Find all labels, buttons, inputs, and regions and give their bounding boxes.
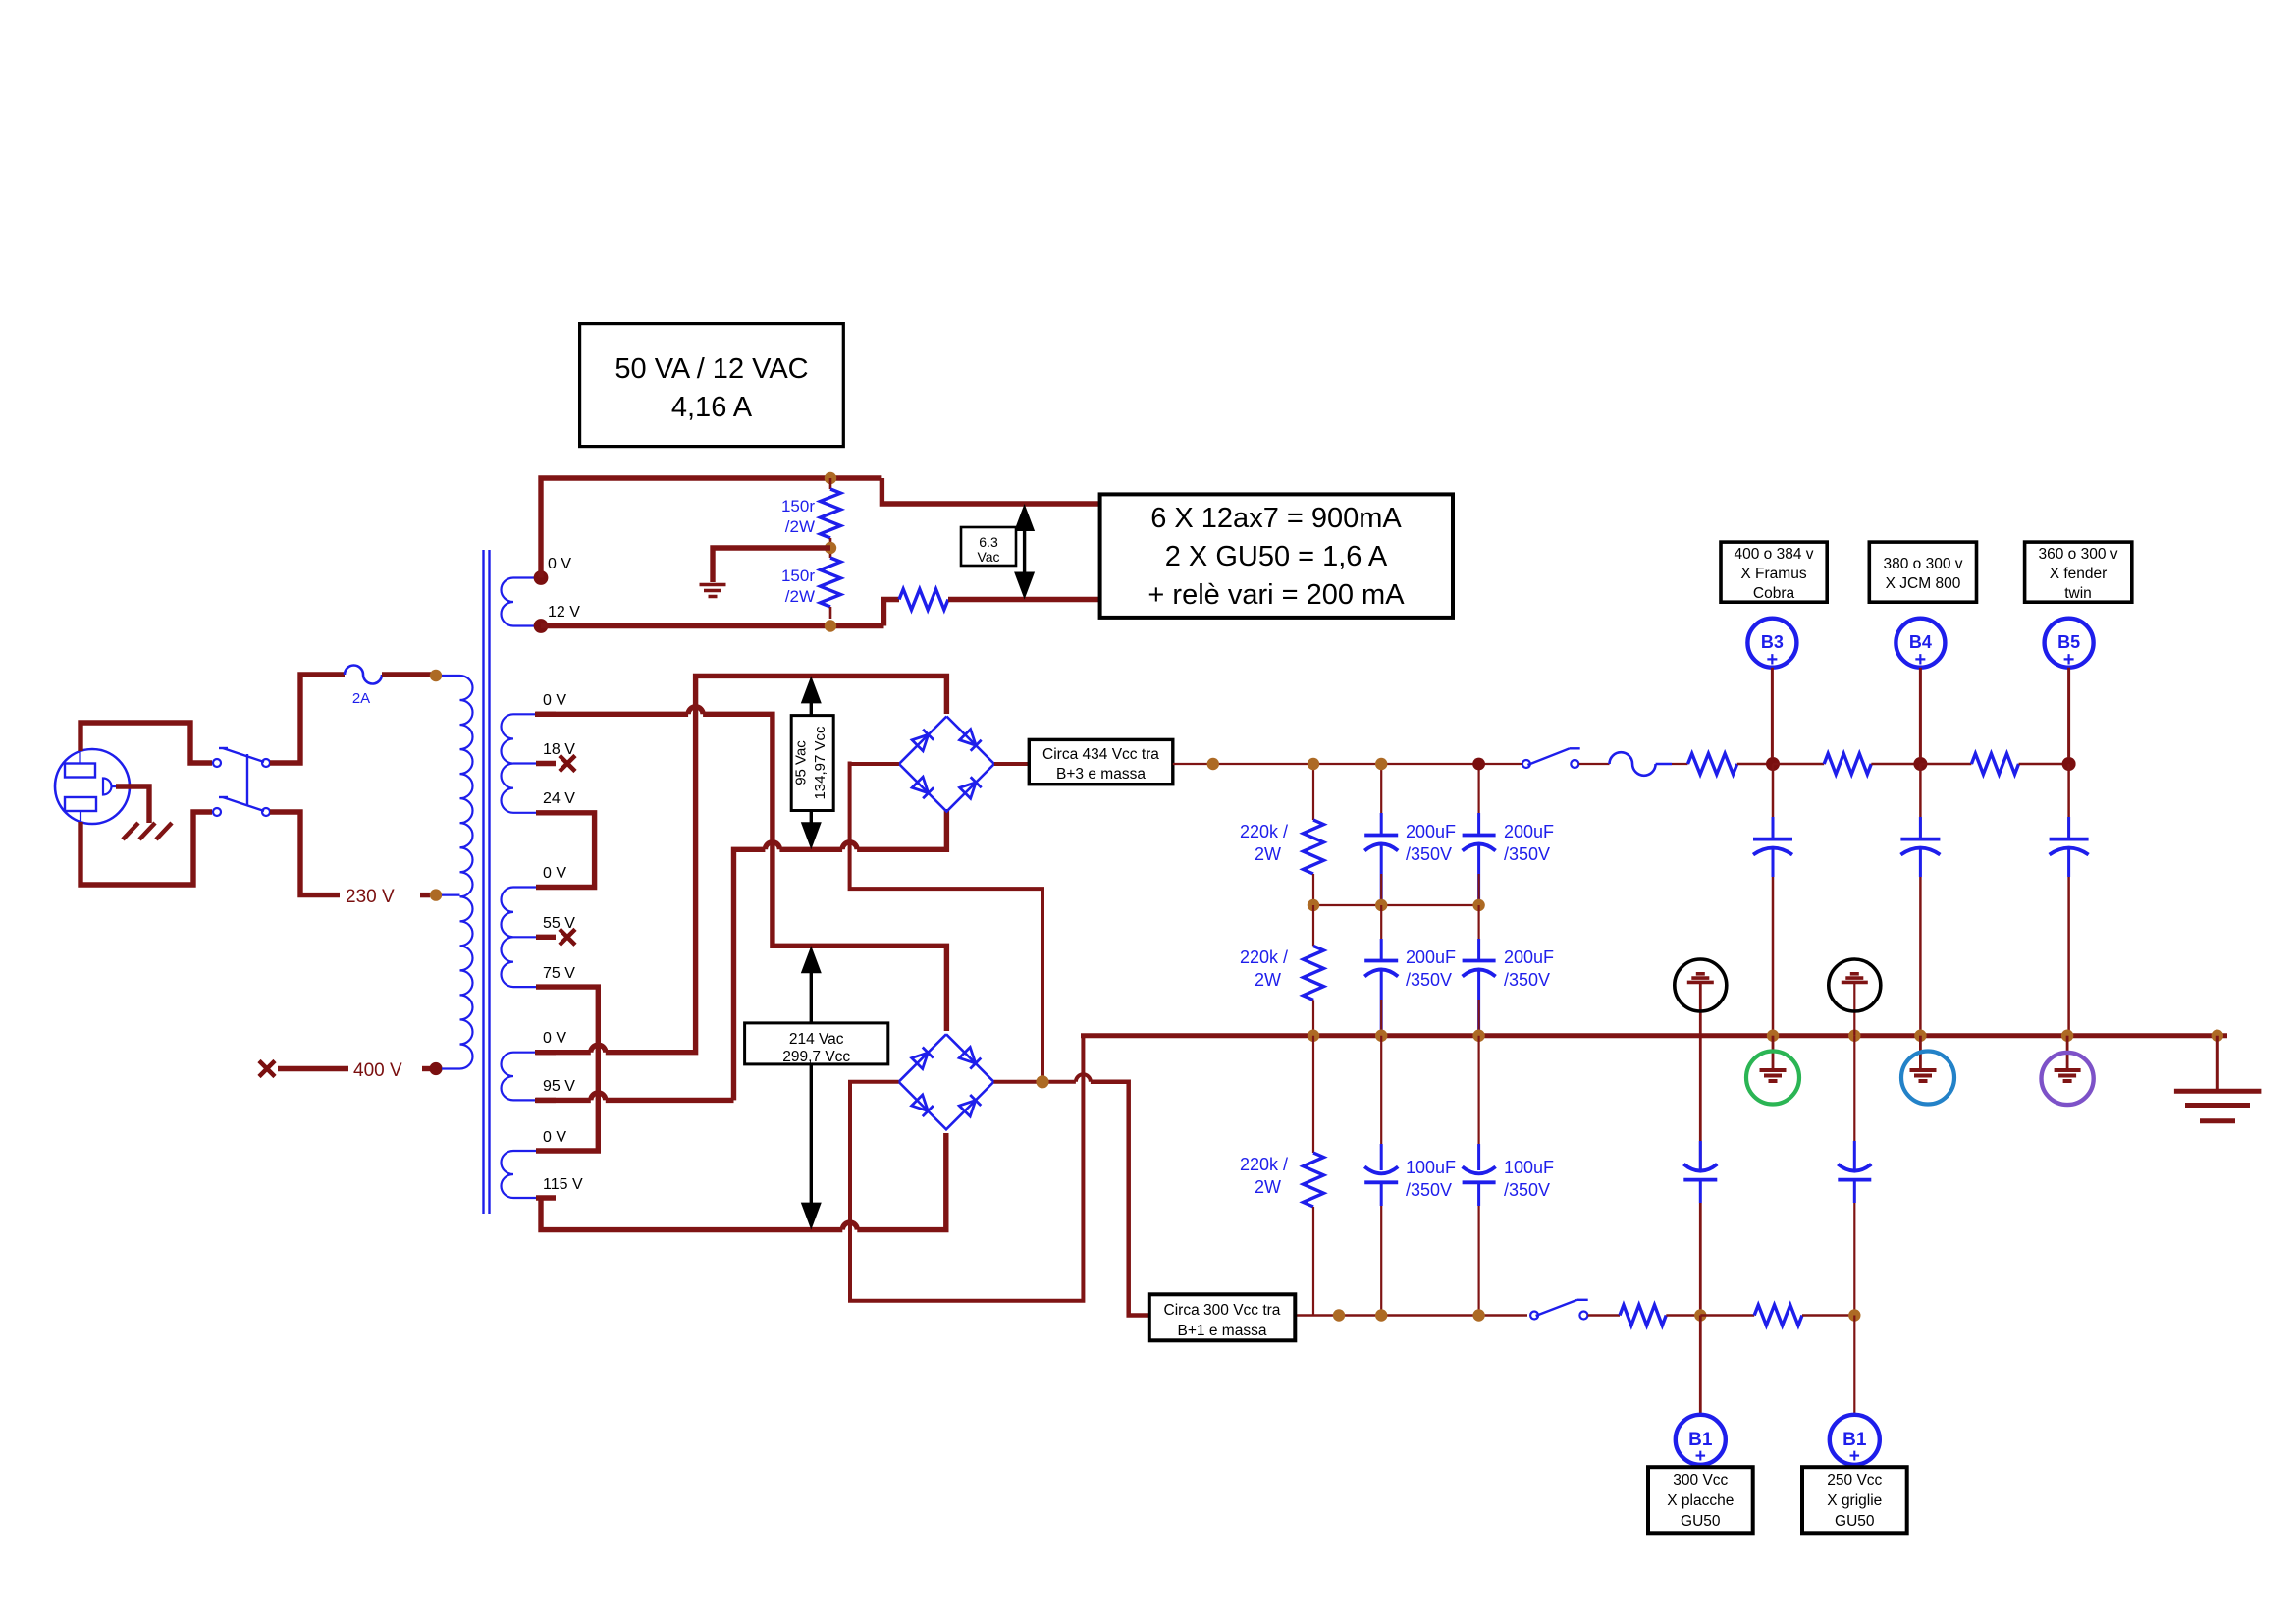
svg-text:150r: 150r [781,567,815,585]
transformer secondary W5 0-115 [502,1151,514,1198]
svg-text:24 V: 24 V [543,790,575,807]
capacitor C6 100uF/350V [1477,1036,1479,1170]
wire heater center tap to ground [713,548,830,582]
open end 400V [259,1061,275,1077]
svg-text:380 o 300 v: 380 o 300 v [1883,556,1962,572]
ground heater [700,583,726,587]
svg-text:230 V: 230 V [346,887,395,907]
svg-text:2W: 2W [1255,1177,1281,1197]
resistor R8 dropper [1773,763,1824,766]
svg-text:50 VA / 12 VAC: 50 VA / 12 VAC [614,353,808,385]
ground circle purple [2066,1036,2069,1070]
transformer secondary W3 0-55-75 [501,888,513,988]
node massa B3 [1767,1030,1779,1042]
box heater load [1100,494,1453,618]
switch S1 link [246,754,248,805]
fuse F2 [1610,752,1656,776]
terminal B3 [1747,619,1796,668]
capacitor C10 B1 filter [1699,1141,1702,1171]
mains plug P1 [55,749,130,824]
box 6.3 Vac [961,527,1016,566]
node B+3 out [1207,758,1219,770]
fuse F1 [345,666,382,684]
node massa B5 [2061,1030,2073,1042]
node massa 2 [1375,1030,1387,1042]
protective earth symbol [123,823,138,839]
svg-text:/350V: /350V [1406,844,1452,864]
tap W2 18V [513,762,536,764]
wire switch to fuse [270,675,345,763]
wire 230V tap [270,812,340,895]
svg-text:360 o 300 v: 360 o 300 v [2038,546,2117,563]
svg-text:12 V: 12 V [548,604,580,621]
svg-text:134,97 Vcc: 134,97 Vcc [812,726,828,800]
mid row wire [1313,904,1479,906]
svg-text:250 Vcc: 250 Vcc [1827,1472,1882,1489]
transformer T1 primary winding [460,676,473,1069]
svg-text:X Framus: X Framus [1740,566,1806,582]
box B5 note [2025,542,2132,602]
resistor R9 dropper [1920,763,1971,766]
wire plug line to switch top [80,723,212,763]
svg-text:0 V: 0 V [543,1030,566,1047]
box circa 434 [1029,739,1173,784]
wire fuse to primary tap [382,672,431,677]
svg-text:twin: twin [2064,585,2092,602]
capacitor C3 200uF/350V [1380,905,1382,961]
svg-text:/350V: /350V [1504,970,1550,990]
transformer secondary W4 0-95 [502,1053,514,1101]
wire W4 95V to bridge1 AC bottom [535,1098,591,1103]
terminal B1 griglie [1853,1316,1855,1415]
terminal B1 placche [1699,1316,1702,1415]
svg-text:X placche: X placche [1667,1492,1734,1509]
box B1 griglie [1802,1467,1907,1533]
bridge rectifier B-HV2 [899,1034,994,1129]
svg-text:4,16 A: 4,16 A [671,392,753,423]
svg-text:18 V: 18 V [543,741,575,758]
resistor R2 150r/2W [829,554,832,558]
node 400V [429,1062,442,1075]
svg-text:299,7 Vcc: 299,7 Vcc [782,1049,850,1065]
switch S1 pole 2 [213,808,221,816]
node B4 [1913,757,1927,771]
tap W2 0V [513,713,536,715]
box circa 300 [1149,1294,1296,1340]
svg-text:+: + [1849,1446,1860,1467]
wire bridge2 minus to massa [850,1036,1083,1301]
node B+1 rail c [1472,1309,1484,1321]
svg-text:0 V: 0 V [548,556,571,572]
node B+3 rail 2 [1375,758,1387,770]
switch S1 pole 1 [213,759,221,767]
svg-text:0 V: 0 V [543,1129,566,1146]
wire F2 to R7 [1656,763,1672,765]
resistor R3 heater series [899,589,948,610]
svg-text:X fender: X fender [2050,566,2108,582]
transformer secondary W2 0-18-24 [502,714,514,813]
svg-text:Circa 300 Vcc tra: Circa 300 Vcc tra [1164,1302,1281,1319]
box 214Vac measure [745,1023,888,1064]
capacitor C4 200uF/350V [1477,905,1479,961]
svg-text:6 X 12ax7 = 900mA: 6 X 12ax7 = 900mA [1150,503,1402,534]
capacitor C1 200uF/350V [1380,764,1382,836]
resistor R5 220k/2W bleeder mid [1312,905,1314,946]
svg-text:0 V: 0 V [543,692,566,709]
resistor R4 220k/2W bleeder top [1312,764,1314,820]
svg-text:150r: 150r [781,497,815,515]
svg-text:2W: 2W [1255,844,1281,864]
svg-text:Circa 434 Vcc tra: Circa 434 Vcc tra [1042,746,1159,763]
tap W5 0V [513,1150,536,1152]
svg-text:100uF: 100uF [1406,1158,1456,1177]
tap W4 95V [513,1099,536,1101]
svg-text:GU50: GU50 [1835,1513,1875,1530]
node B3 [1766,757,1780,771]
wire W3 75V to W5 0V series link [556,987,598,1151]
svg-text:GU50: GU50 [1681,1513,1721,1530]
switch S2 standby B+3 [1522,760,1530,768]
capacitor C2 200uF/350V [1477,764,1479,836]
node heater mid [825,542,836,554]
open end 18V [560,756,575,772]
node massa B4 [1914,1030,1926,1042]
svg-text:214 Vac: 214 Vac [789,1031,844,1048]
svg-text:B+1 e massa: B+1 e massa [1178,1323,1267,1339]
ground circle black 1 [1699,982,1702,1035]
wire W1 0V to heater rail [541,478,881,578]
resistor R11 dropper [1700,1314,1754,1316]
tap W3 75V [513,986,536,988]
svg-text:0 V: 0 V [543,865,566,882]
node mid 1 [1308,899,1319,911]
svg-text:220k /: 220k / [1240,1155,1288,1174]
svg-text:X griglie: X griglie [1827,1492,1882,1509]
svg-text:+: + [1695,1446,1706,1467]
node B5 [2062,757,2076,771]
node heater top [825,472,836,484]
box transformer rating [580,324,844,447]
svg-text:2A: 2A [352,690,370,707]
svg-text:6.3: 6.3 [979,534,998,550]
svg-text:/2W: /2W [785,587,815,606]
wire R3 to load box [948,597,1100,602]
svg-text:X JCM 800: X JCM 800 [1886,575,1961,592]
terminal B4 [1896,619,1945,668]
svg-text:300 Vcc: 300 Vcc [1673,1472,1728,1489]
resistor R10 dropper [1620,1305,1666,1326]
node B+1 rail b [1375,1309,1387,1321]
wire B+3 rail [1173,763,1526,765]
node heater bottom [825,620,836,631]
svg-text:95 Vac: 95 Vac [793,740,810,785]
wire R10 to B1a node [1666,1314,1700,1316]
bridge rectifier B-HV1 [899,717,994,812]
svg-text:Vac: Vac [977,549,999,565]
main ground far right [2216,1036,2219,1092]
node B+3 rail 1 [1308,758,1319,770]
node mid 2 [1375,899,1387,911]
svg-text:200uF: 200uF [1504,947,1554,967]
svg-text:95 V: 95 V [543,1078,575,1095]
box B1 placche [1648,1467,1753,1533]
junction primary top [430,670,442,681]
open end 55V [560,929,575,945]
node B+1 rail a [1333,1309,1345,1321]
svg-text:75 V: 75 V [543,965,575,982]
wire S2 to fuse F2 [1579,763,1610,765]
node 230V [430,889,442,900]
svg-text:400 o 384 v: 400 o 384 v [1734,546,1813,563]
tap W3 55V [513,936,536,938]
capacitor C8 B4 decoupling [1919,764,1922,839]
node massa 3 [1472,1030,1484,1042]
svg-text:100uF: 100uF [1504,1158,1554,1177]
ground circle green [1772,1036,1775,1070]
svg-text:220k /: 220k / [1240,822,1288,841]
svg-text:/350V: /350V [1504,1180,1550,1200]
node B1a [1694,1309,1706,1321]
node massa 1 [1308,1030,1319,1042]
svg-text:/350V: /350V [1406,1180,1452,1200]
massa rail [1081,1033,2227,1038]
resistor R1 150r/2W [829,478,832,489]
node B+3 rail 3 [1472,758,1485,771]
wire bridge2 plus to B+1 [994,1080,1076,1084]
measure arrow 95Vac [810,699,813,826]
svg-text:+ relè vari = 200 mA: + relè vari = 200 mA [1148,579,1405,611]
wire W1 12V to heater return [541,623,884,628]
tap W2 24V [513,812,536,814]
wire W2 0V to bridge2 AC top [535,712,688,717]
ground circle cyan [1919,1036,1922,1070]
transformer secondary W1 12V heater [502,578,514,626]
wire W5 115V to bridge2 AC bottom [541,1198,842,1230]
node W1 12V [534,619,549,633]
svg-text:2W: 2W [1255,970,1281,990]
wire black2 to C11 [1853,1036,1855,1171]
wire bridge1 plus to Circa434 box [994,762,1036,766]
svg-text:B+3 e massa: B+3 e massa [1056,766,1146,783]
svg-text:200uF: 200uF [1504,822,1554,841]
capacitor C9 B5 decoupling [2067,764,2070,839]
wire plug neutral to switch bottom [80,812,212,885]
svg-text:/2W: /2W [785,517,815,536]
capacitor C5 100uF/350V [1380,1036,1382,1170]
svg-text:115 V: 115 V [543,1176,583,1193]
node mid 3 [1472,899,1484,911]
wire plug earth pin [116,786,149,823]
node W1 0V [534,570,549,585]
tap W3 0V [513,886,536,888]
svg-text:220k /: 220k / [1240,947,1288,967]
box B3 note [1721,542,1827,602]
measure arrow 6.3Vac [1023,527,1026,576]
svg-text:400 V: 400 V [353,1060,402,1081]
tap W4 0V [513,1052,536,1054]
svg-text:Cobra: Cobra [1753,585,1795,602]
wire W2 24V to W3 0V series link [556,813,595,888]
wire bridge1 minus to B+1 node (series stack) [850,762,899,766]
capacitor C11 B1 filter [1853,1141,1856,1171]
transformer core [482,550,484,1214]
node B+1 stack junction [1036,1075,1048,1088]
node massa main gnd [2212,1030,2223,1042]
measure arrow 214Vac [810,969,813,1206]
wire R7 to B3 node [1737,763,1773,766]
box 95Vac measure [791,716,833,811]
wire S3 to R10 [1588,1314,1620,1316]
wire black1 to C10 [1699,1036,1702,1171]
resistor R6 220k/2W bleeder bottom [1312,1036,1314,1153]
svg-text:/350V: /350V [1504,844,1550,864]
switch S3 standby B+1 [1530,1312,1538,1320]
svg-text:2 X GU50 = 1,6 A: 2 X GU50 = 1,6 A [1165,541,1388,572]
svg-text:200uF: 200uF [1406,822,1456,841]
wire W4 0V to bridge1 AC top [535,1050,591,1055]
tap W5 115V [513,1197,536,1199]
svg-text:/350V: /350V [1406,970,1452,990]
svg-text:55 V: 55 V [543,915,575,932]
ground circle black 2 [1853,982,1855,1035]
node B1b [1848,1309,1860,1321]
resistor R7 dropper [1688,754,1737,775]
capacitor C7 B3 decoupling [1772,764,1775,839]
svg-text:200uF: 200uF [1406,947,1456,967]
box B4 note [1869,542,1976,602]
node massa black2 [1848,1030,1860,1042]
terminal B5 [2045,619,2094,668]
